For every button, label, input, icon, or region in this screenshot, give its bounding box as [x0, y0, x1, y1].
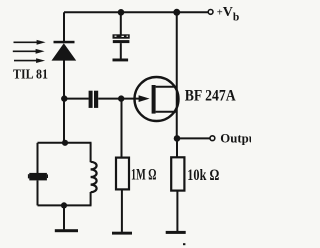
svg-text:TIL 81: TIL 81 [13, 66, 48, 81]
transistor Q1 drain lead [156, 86, 177, 88]
node junction top cap [118, 9, 125, 16]
wire gate node down to R1 [121, 99, 123, 158]
wire top rail [64, 11, 208, 13]
ground (filter cap) [113, 59, 129, 62]
op-amp: transistor Q1 BF 247A circle [135, 77, 179, 121]
wire tank top [38, 142, 92, 144]
transistor Q1 source lead [156, 111, 177, 113]
wire output [177, 137, 210, 139]
ground (R1) [112, 232, 132, 235]
terminal Output [210, 136, 215, 141]
photodiode D1 TIL 81 cathode bar [54, 41, 75, 44]
wire source down to R2 [176, 139, 178, 158]
svg-text:1M Ω: 1M Ω [131, 167, 157, 184]
light arrow 1 [14, 40, 46, 45]
wire filter-cap branch lower [120, 43, 122, 59]
wire filter-cap branch upper [120, 12, 122, 34]
wire coupling cap to gate node [98, 98, 121, 100]
wire drain-source vertical [176, 12, 178, 138]
wire R1 to ground [121, 189, 123, 232]
light arrow 2 [13, 49, 45, 54]
photodiode D1 anode triangle [52, 43, 77, 60]
svg-text:10k Ω: 10k Ω [187, 167, 219, 184]
wire tank left lower [37, 180, 39, 205]
wire tank to ground [63, 205, 65, 229]
light arrow 3 [14, 58, 45, 63]
resistor R1 1M body [116, 158, 129, 190]
capacitor C3 (tank) [28, 173, 48, 181]
wire tank right lower [90, 192, 92, 205]
wire left vertical top [63, 12, 65, 41]
capacitor C2 (supply filter) [113, 34, 130, 43]
wire tank right upper [90, 143, 92, 162]
node junction output [174, 135, 181, 142]
node junction gate-left [61, 95, 67, 101]
ground (R2) [166, 231, 186, 234]
wire diode anode down [63, 60, 65, 142]
terminal +Vb [208, 10, 213, 15]
svg-text:Output: Output [220, 132, 251, 146]
svg-text:BF 247A: BF 247A [185, 88, 236, 105]
wire diode node to coupling cap [64, 98, 89, 100]
resistor R2 10k body [171, 157, 184, 190]
wire tank left upper [37, 143, 39, 173]
wire R2 to ground [176, 191, 178, 232]
ground (tank) [55, 229, 78, 232]
wire tank bottom [38, 204, 92, 206]
capacitor C1 (coupling) [89, 91, 99, 108]
gate arrowhead [139, 95, 150, 102]
stray mark [183, 243, 185, 245]
wire gate lead [121, 98, 140, 100]
transistor Q1 channel bar [152, 85, 156, 114]
node junction tank top [62, 140, 68, 146]
node junction tank bottom [61, 202, 67, 208]
node junction top drain [173, 9, 180, 16]
node junction gate [118, 95, 124, 101]
inductor L1 [91, 162, 97, 192]
